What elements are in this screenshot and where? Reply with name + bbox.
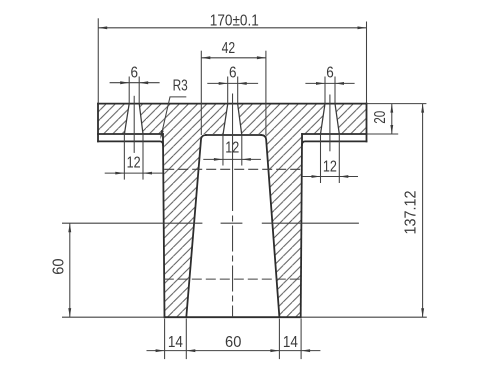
svg-text:R3: R3 bbox=[173, 78, 188, 95]
dimension 20 bbox=[367, 103, 427, 105]
dimension 14-60-14 extension lines bbox=[164, 319, 166, 360]
dimension 60 (height) bbox=[69, 223, 71, 317]
svg-text:14: 14 bbox=[283, 334, 298, 351]
svg-text:137.12: 137.12 bbox=[402, 190, 419, 234]
vertical centerline bbox=[232, 94, 234, 212]
svg-text:42: 42 bbox=[222, 40, 236, 57]
flange underside left (line A) bbox=[98, 133, 163, 135]
bottom face extension lines bbox=[62, 316, 165, 318]
svg-text:12: 12 bbox=[225, 139, 239, 156]
right slot walls bbox=[321, 104, 326, 134]
cavity inner edge right bbox=[261, 135, 279, 317]
hidden line upper bbox=[164, 168, 301, 170]
center slot cutout bbox=[223, 104, 242, 135]
dimension 170±0.1 bbox=[97, 18, 99, 103]
left slot walls bbox=[124, 104, 129, 134]
dimension 12 (left slot) bbox=[123, 134, 125, 180]
flange left edge bbox=[97, 104, 99, 142]
dimension 42 bbox=[200, 51, 202, 135]
center slot walls bbox=[223, 104, 228, 135]
dimension 12 (right slot) bbox=[320, 134, 322, 183]
cavity inner edge left bbox=[186, 135, 206, 317]
svg-text:170±0.1: 170±0.1 bbox=[210, 13, 259, 30]
svg-text:6: 6 bbox=[229, 64, 237, 81]
right slot cutout bbox=[321, 104, 340, 134]
dimension 12 (center slot) bbox=[222, 135, 224, 166]
svg-text:60: 60 bbox=[225, 334, 241, 351]
svg-text:14: 14 bbox=[168, 334, 183, 351]
hatched right stem wall section bbox=[266, 134, 302, 317]
stem bottom face bbox=[165, 316, 301, 318]
flange underside right (line A) bbox=[302, 133, 366, 135]
left slot centerline bbox=[133, 96, 135, 153]
stem outer edge right bbox=[301, 134, 302, 317]
dimension 60 (cavity bottom width) bbox=[186, 349, 195, 352]
svg-text:60: 60 bbox=[51, 258, 68, 274]
svg-text:12: 12 bbox=[323, 159, 337, 176]
lip bottom left with R3 fillet bbox=[98, 141, 163, 145]
flange right edge bbox=[366, 104, 368, 142]
right slot centerline bbox=[329, 95, 331, 152]
hidden line lower bbox=[164, 278, 301, 280]
hatched flange section bbox=[98, 104, 367, 134]
flange top edge bbox=[98, 103, 367, 105]
horizontal reference line at 60 height bbox=[62, 222, 202, 224]
stem outer edge left bbox=[163, 134, 165, 317]
cavity top edge with fillets bbox=[206, 134, 261, 136]
dimension 6 (right slot) bbox=[324, 77, 326, 104]
dimension 14 (left wall) bbox=[147, 350, 321, 352]
dimension 137.12 bbox=[422, 104, 424, 318]
dimension 6 (left slot) bbox=[128, 77, 130, 104]
svg-text:6: 6 bbox=[326, 64, 334, 81]
left slot cutout bbox=[124, 104, 143, 134]
svg-text:20: 20 bbox=[372, 111, 389, 124]
svg-text:12: 12 bbox=[127, 155, 141, 172]
hatched left stem wall section bbox=[163, 134, 201, 317]
fillet radius label R3 with leader bbox=[161, 97, 186, 137]
lip bottom right with R3 fillet bbox=[302, 141, 367, 145]
svg-text:6: 6 bbox=[130, 64, 138, 81]
dimension 14 (right wall) bbox=[301, 349, 310, 352]
dimension 6 (center slot) bbox=[227, 77, 229, 104]
